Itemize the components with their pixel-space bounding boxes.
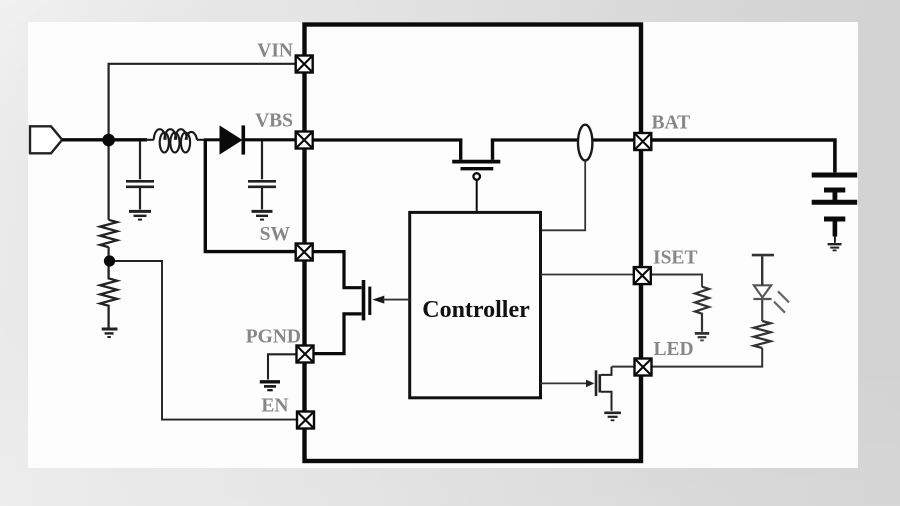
wire Q2 source to PGND (314, 314, 362, 354)
pin PGND (297, 346, 314, 363)
current sense ellipse (578, 125, 592, 161)
wire C2 branch (261, 141, 263, 179)
label BAT (652, 113, 691, 134)
capacitor C2 (248, 181, 276, 209)
wire C1 branch (139, 141, 141, 179)
battery BT1 (812, 175, 858, 243)
pin SW (296, 244, 313, 261)
pin ISET (634, 267, 651, 284)
junction node B (104, 255, 115, 266)
svg-text:LED: LED (654, 339, 694, 360)
label VIN (257, 41, 293, 62)
pin BAT (634, 133, 651, 150)
wire LED pin to LED branch (652, 348, 763, 367)
resistor R1 (100, 220, 117, 247)
label LED (654, 339, 694, 360)
capacitor C1 (126, 181, 154, 209)
svg-text:PGND: PGND (246, 327, 301, 348)
inductor L1 (146, 129, 204, 152)
wire ellipse to controller (542, 161, 585, 231)
wire PGND to ground (268, 354, 297, 379)
wire R1 to node B (107, 247, 109, 261)
transistor Q3 (NMOS, LED driver) (586, 367, 612, 411)
ground R2 (102, 329, 118, 337)
pin VIN (296, 56, 313, 73)
led D2 (753, 256, 771, 321)
transistor Q1 (PMOS) (452, 139, 500, 211)
wire controller to ISET (541, 274, 634, 276)
wire VIN: node A up to VIN pin (109, 64, 296, 220)
wire EN: node B to EN pin (110, 261, 297, 420)
wire SW to Q2 drain (313, 252, 362, 288)
controller block (410, 212, 541, 397)
ground R3 (695, 333, 709, 340)
wire BAT to battery (652, 140, 835, 172)
label Controller (422, 297, 530, 323)
svg-text:SW: SW (260, 224, 291, 245)
wire controller to Q3 gate (541, 382, 587, 384)
label ISET (653, 248, 697, 269)
wire LED pin to Q3 drain (612, 366, 635, 368)
ground PGND (260, 382, 280, 390)
led arrows (774, 291, 789, 312)
wire SW branch (205, 140, 295, 252)
terminal bar LED branch (752, 254, 774, 257)
svg-text:Controller: Controller (422, 297, 530, 323)
transistor Q2 (NMOS) (364, 280, 385, 320)
svg-text:VBS: VBS (255, 111, 293, 132)
input connector (30, 126, 62, 153)
ground battery (828, 244, 842, 250)
resistor R4 (754, 321, 771, 348)
ground C1 (129, 211, 151, 219)
pin EN (297, 412, 314, 429)
label EN (261, 396, 288, 417)
junction node A (102, 134, 115, 147)
pin LED (635, 359, 652, 376)
svg-text:VIN: VIN (257, 41, 293, 62)
wire VBS to Q1 (313, 138, 462, 141)
svg-text:BAT: BAT (652, 113, 691, 134)
diode D1 (204, 125, 295, 154)
resistor R2 (100, 261, 117, 328)
ground C2 (252, 211, 273, 219)
label SW (260, 224, 291, 245)
ground Q3 (604, 413, 621, 421)
wire Q1 to BAT (491, 138, 634, 141)
IC U1 body (305, 25, 642, 462)
pin VBS (296, 132, 313, 149)
label PGND (246, 327, 301, 348)
resistor R3 (695, 287, 709, 332)
wire input to node A (62, 138, 147, 141)
svg-text:ISET: ISET (653, 248, 697, 269)
wire ISET to R3 (651, 275, 702, 287)
wire Q2 gate to controller (383, 299, 410, 301)
svg-text:EN: EN (261, 396, 288, 417)
label VBS (255, 111, 293, 132)
